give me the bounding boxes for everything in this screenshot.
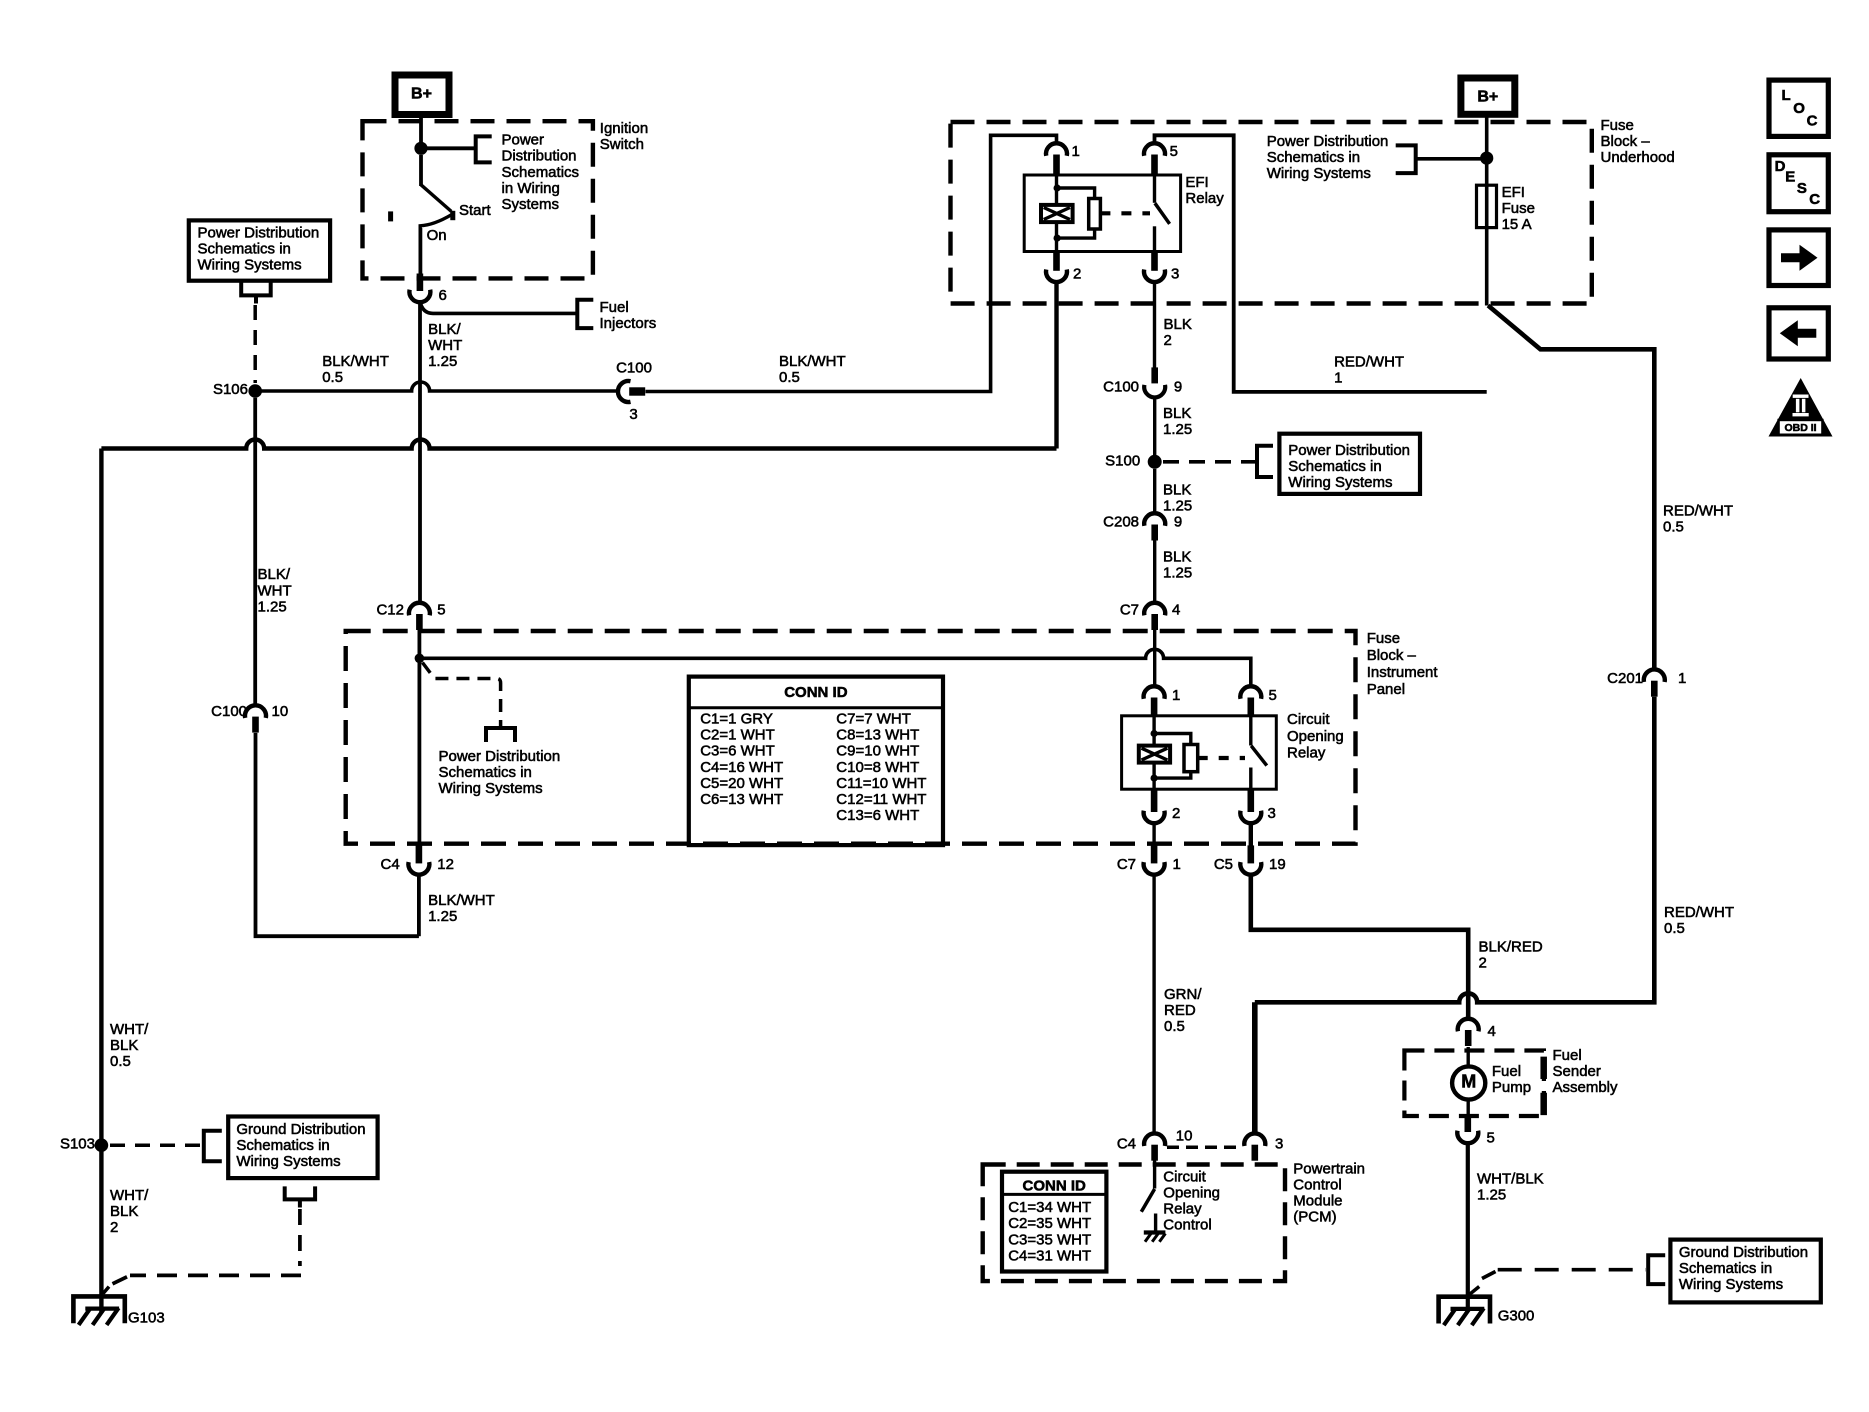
ground G103	[73, 1296, 124, 1323]
svg-text:C6=13 WHT: C6=13 WHT	[700, 791, 783, 808]
svg-text:Block –: Block –	[1367, 647, 1417, 664]
svg-text:3: 3	[1275, 1136, 1283, 1153]
svg-text:Assembly: Assembly	[1553, 1079, 1619, 1096]
svg-text:C2=1 WHT: C2=1 WHT	[700, 727, 775, 744]
svg-text:CONN ID: CONN ID	[784, 684, 848, 701]
svg-text:19: 19	[1269, 856, 1286, 873]
svg-text:0.5: 0.5	[1164, 1018, 1185, 1035]
svg-text:Fuel: Fuel	[600, 299, 629, 316]
svg-text:2: 2	[110, 1219, 118, 1236]
svg-text:Underhood: Underhood	[1601, 149, 1675, 166]
connector C201 pin 1	[1644, 669, 1665, 682]
svg-text:0.5: 0.5	[110, 1053, 131, 1070]
svg-text:S103: S103	[60, 1135, 95, 1152]
svg-text:Block –: Block –	[1601, 133, 1651, 150]
svg-text:C2=35 WHT: C2=35 WHT	[1008, 1215, 1091, 1232]
svg-text:C4: C4	[1117, 1136, 1136, 1153]
connector C4 pin 12	[408, 862, 429, 875]
svg-text:Control: Control	[1293, 1177, 1341, 1194]
svg-text:Power Distribution: Power Distribution	[198, 225, 320, 242]
connector COR pin 3	[1240, 811, 1261, 824]
wire connector 6 down to C12 (BLK/WHT 1.25)	[418, 302, 422, 604]
wire C100 pin10 down and right to C4 12	[256, 733, 419, 936]
svg-text:WHT/: WHT/	[110, 1021, 149, 1038]
svg-text:BLK: BLK	[110, 1203, 138, 1220]
connector C7 pin 1	[1144, 862, 1165, 875]
reference bracket (G300 ground distribution)	[1648, 1255, 1665, 1284]
EFI relay coil	[1041, 205, 1073, 222]
svg-text:1.25: 1.25	[1163, 497, 1192, 514]
svg-text:BLK: BLK	[110, 1037, 138, 1054]
svg-text:Wiring Systems: Wiring Systems	[1288, 474, 1392, 491]
COR junction lower	[1151, 775, 1158, 782]
svg-text:Schematics in: Schematics in	[1267, 149, 1360, 166]
wire ground bus down left side (WHT/BLK)	[99, 449, 103, 1314]
svg-text:Fuse: Fuse	[1502, 200, 1535, 217]
svg-text:On: On	[427, 227, 447, 244]
svg-text:0.5: 0.5	[779, 369, 800, 386]
svg-text:C7: C7	[1120, 602, 1139, 619]
svg-text:C3=6 WHT: C3=6 WHT	[700, 743, 775, 760]
svg-text:BLK/WHT: BLK/WHT	[322, 353, 389, 370]
svg-text:C1=34 WHT: C1=34 WHT	[1008, 1199, 1091, 1216]
icon forward arrow box	[1769, 230, 1828, 286]
COR switch lower contact	[1249, 768, 1252, 790]
fuel sender right edge dashes	[1540, 1057, 1547, 1116]
EFI coil return wire	[1055, 222, 1058, 251]
node junction inside ignition switch	[414, 142, 427, 155]
svg-text:BLK/WHT: BLK/WHT	[428, 892, 495, 909]
connector fuel pump pin 5	[1457, 1131, 1478, 1144]
svg-text:BLK/WHT: BLK/WHT	[779, 353, 846, 370]
svg-text:2: 2	[1073, 265, 1081, 282]
svg-text:Circuit: Circuit	[1163, 1169, 1206, 1186]
svg-text:1.25: 1.25	[258, 599, 287, 616]
svg-text:Sender: Sender	[1553, 1063, 1601, 1080]
wire reference bracket to fuse feed	[1416, 157, 1481, 161]
power node B+ (right battery feed)	[1461, 78, 1515, 114]
reference box Power Distribution (S100)	[1279, 434, 1420, 494]
wire C201 down to PCM pin 3	[1255, 697, 1655, 1003]
wire S106 down to C100 pin 10	[253, 398, 257, 706]
dashed pointer to power distribution note	[422, 663, 500, 727]
svg-text:Module: Module	[1293, 1193, 1342, 1210]
svg-text:10: 10	[1176, 1128, 1193, 1145]
svg-text:9: 9	[1174, 514, 1182, 531]
svg-text:3: 3	[629, 406, 637, 423]
dashed reference wire to G103 (horizontal)	[130, 1274, 301, 1278]
svg-text:Relay: Relay	[1287, 744, 1326, 761]
wire C7 pin1 down to PCM C4 pin10 (GRN/RED)	[1152, 874, 1155, 1134]
wire branch to fuel injectors	[420, 302, 577, 314]
connector PCM C4 pin 10	[1144, 1133, 1165, 1146]
wire B+ through EFI fuse	[1485, 115, 1489, 306]
EFI resistor bottom link	[1057, 229, 1095, 238]
contact tick Start	[450, 211, 455, 220]
svg-text:C12=11 WHT: C12=11 WHT	[836, 791, 926, 808]
connector PCM pin 3	[1244, 1133, 1265, 1146]
EFI switch blade	[1155, 203, 1170, 224]
wire S100 to C208 (BLK 1.25)	[1153, 469, 1156, 514]
EFI coil feed wire	[1055, 175, 1058, 205]
svg-text:BLK: BLK	[1163, 481, 1191, 498]
wire junction to COR pin 5	[419, 649, 1250, 687]
svg-text:BLK: BLK	[1163, 405, 1191, 422]
power node B+ (left battery feed)	[395, 75, 449, 115]
dashed diagonal into G103	[113, 1277, 128, 1284]
svg-text:Opening: Opening	[1287, 728, 1344, 745]
svg-text:Schematics in: Schematics in	[1679, 1260, 1772, 1277]
svg-text:RED/WHT: RED/WHT	[1663, 503, 1733, 520]
svg-text:E: E	[1785, 168, 1795, 185]
EFI switch lower contact	[1153, 226, 1156, 251]
dashed reference wire to G103 (vertical)	[298, 1209, 302, 1266]
svg-text:EFI: EFI	[1185, 174, 1208, 191]
svg-text:(PCM): (PCM)	[1293, 1209, 1336, 1226]
svg-text:Relay: Relay	[1163, 1201, 1202, 1218]
svg-text:Panel: Panel	[1367, 681, 1405, 698]
svg-text:D: D	[1775, 158, 1786, 175]
svg-text:C3=35 WHT: C3=35 WHT	[1008, 1232, 1091, 1249]
svg-text:S: S	[1797, 180, 1807, 197]
svg-text:Wiring Systems: Wiring Systems	[1267, 165, 1371, 182]
wire C12 down through fuse block to C4 pin 12	[417, 630, 421, 846]
wire S106 to C100 pin 3	[255, 382, 618, 391]
svg-text:C100: C100	[616, 359, 652, 376]
svg-text:Instrument: Instrument	[1367, 664, 1439, 681]
junction dot fuse feed	[1480, 152, 1493, 165]
svg-text:Wiring Systems: Wiring Systems	[439, 780, 543, 797]
svg-text:C5=20 WHT: C5=20 WHT	[700, 775, 783, 792]
svg-text:1.25: 1.25	[428, 908, 457, 925]
wire C100 pin3 to EFI relay pin 1 coil feed	[646, 135, 1057, 391]
svg-text:9: 9	[1174, 378, 1182, 395]
svg-text:4: 4	[1488, 1023, 1496, 1040]
icon DESC box	[1769, 155, 1828, 212]
reference bracket (instrument panel power note)	[486, 728, 515, 742]
EFI resistor	[1089, 199, 1101, 230]
COR relay coil	[1139, 746, 1170, 763]
svg-text:Fuel: Fuel	[1553, 1047, 1582, 1064]
svg-text:Schematics in: Schematics in	[236, 1137, 329, 1154]
connector C12 pin 5	[409, 603, 430, 616]
EFI switch upper contact	[1153, 175, 1156, 203]
svg-text:15 A: 15 A	[1502, 216, 1532, 233]
svg-text:1: 1	[1334, 369, 1342, 386]
dashed reference wire S103 to bracket	[110, 1143, 202, 1147]
svg-text:G300: G300	[1498, 1308, 1535, 1325]
svg-text:Distribution: Distribution	[502, 148, 577, 165]
svg-text:C4: C4	[381, 856, 400, 873]
connector fuel pump pin 4	[1458, 1019, 1479, 1032]
svg-text:C: C	[1807, 113, 1818, 130]
connector EFI relay pin 5	[1144, 143, 1165, 156]
svg-text:1.25: 1.25	[1163, 565, 1192, 582]
junction dot inside fuse block	[415, 654, 425, 664]
svg-text:Fuel: Fuel	[1492, 1063, 1521, 1080]
reference bracket (ignition switch power distribution)	[476, 136, 492, 162]
svg-text:Power: Power	[502, 131, 545, 148]
COR coil return wire	[1152, 763, 1155, 790]
svg-text:RED/WHT: RED/WHT	[1334, 353, 1404, 370]
svg-text:Power Distribution: Power Distribution	[1288, 442, 1410, 459]
svg-text:3: 3	[1171, 265, 1179, 282]
wire ground bus across (right to left)	[101, 439, 1056, 448]
wire C7-4 into fuse block to COR pin 1	[1153, 630, 1156, 687]
wire pin4 to motor	[1466, 1047, 1469, 1067]
svg-text:Fuse: Fuse	[1601, 117, 1634, 134]
svg-text:1: 1	[1172, 687, 1180, 704]
PCM switch feed wire	[1153, 1161, 1156, 1189]
wire through fuse	[1485, 185, 1489, 227]
svg-text:GRN/: GRN/	[1164, 986, 1202, 1003]
svg-text:Start: Start	[459, 202, 492, 219]
relay box EFI relay	[1024, 175, 1180, 252]
COR resistor top link	[1154, 734, 1191, 745]
svg-text:Ground Distribution: Ground Distribution	[1679, 1244, 1808, 1261]
reference bracket (fuel injectors)	[577, 300, 593, 328]
svg-text:Powertrain: Powertrain	[1293, 1161, 1365, 1178]
COR junction upper	[1151, 730, 1158, 737]
svg-text:0.5: 0.5	[322, 369, 343, 386]
svg-text:Power Distribution: Power Distribution	[439, 748, 561, 765]
svg-text:12: 12	[437, 856, 454, 873]
svg-text:O: O	[1793, 100, 1805, 117]
svg-text:WHT: WHT	[258, 582, 292, 599]
table CONN ID (PCM)	[1002, 1172, 1106, 1272]
connector EFI relay pin 2	[1046, 270, 1067, 283]
svg-text:WHT: WHT	[428, 337, 462, 354]
wire EFI pin3 down (BLK 2)	[1153, 282, 1156, 368]
svg-text:5: 5	[1487, 1130, 1495, 1147]
svg-text:Switch: Switch	[600, 136, 644, 153]
reference box Ground Distribution (right)	[1670, 1240, 1820, 1303]
svg-text:B+: B+	[411, 86, 432, 103]
svg-text:C10=8 WHT: C10=8 WHT	[836, 759, 919, 776]
svg-text:C7: C7	[1117, 856, 1136, 873]
svg-text:3: 3	[1268, 805, 1276, 822]
svg-text:0.5: 0.5	[1663, 519, 1684, 536]
wire C100-9 to S100 (BLK 1.25)	[1153, 397, 1156, 455]
svg-text:C4=31 WHT: C4=31 WHT	[1008, 1248, 1091, 1265]
wire stub into PCM pin 3	[1252, 1002, 1258, 1134]
dashed reference wire S100	[1163, 460, 1256, 464]
fuel sender assembly dashed box	[1404, 1051, 1544, 1117]
COR coil feed wire	[1152, 716, 1155, 746]
svg-text:5: 5	[1170, 143, 1178, 160]
svg-text:6: 6	[439, 287, 447, 304]
splice S106	[248, 384, 262, 398]
connector EFI relay pin 3	[1144, 270, 1165, 283]
svg-text:Schematics in: Schematics in	[1288, 458, 1381, 475]
svg-text:C100: C100	[211, 703, 247, 720]
svg-text:1.25: 1.25	[1163, 421, 1192, 438]
ground tick G103	[103, 1287, 109, 1294]
svg-text:BLK/RED: BLK/RED	[1479, 939, 1543, 956]
icon back arrow box	[1769, 308, 1828, 359]
COR resistor bottom link	[1154, 772, 1191, 778]
reference bracket (S100 power note)	[1257, 446, 1273, 477]
fuse block underhood dashed box	[951, 122, 1592, 304]
svg-text:Schematics in: Schematics in	[198, 241, 291, 258]
svg-text:WHT/: WHT/	[110, 1187, 149, 1204]
reference box Ground Distribution (left)	[228, 1117, 377, 1179]
svg-text:Systems: Systems	[502, 196, 560, 213]
svg-text:C5: C5	[1214, 856, 1233, 873]
dashed connector face PCM	[1167, 1146, 1242, 1150]
svg-text:BLK/: BLK/	[428, 321, 461, 338]
svg-text:S100: S100	[1105, 453, 1140, 470]
table CONN ID (instrument panel fuse block)	[689, 677, 943, 846]
svg-text:G103: G103	[128, 1310, 165, 1327]
fuse EFI 15A	[1477, 185, 1497, 227]
wire B+ to ignition switch junction	[419, 115, 423, 145]
svg-text:B+: B+	[1477, 89, 1498, 106]
fuse block instrument panel dashed box	[346, 631, 1356, 844]
wire COR pin3 to C5 pin19	[1249, 823, 1253, 846]
svg-text:C8=13 WHT: C8=13 WHT	[836, 727, 919, 744]
svg-text:Ignition: Ignition	[600, 120, 648, 137]
svg-text:0.5: 0.5	[1664, 920, 1685, 937]
svg-text:C1=1 GRY: C1=1 GRY	[700, 711, 773, 728]
ground G300	[1439, 1297, 1490, 1324]
PCM driver switch blade	[1141, 1189, 1154, 1212]
reference bracket (S103 ground distribution)	[204, 1131, 222, 1162]
icon OBD II triangle	[1769, 378, 1833, 437]
svg-text:EFI: EFI	[1502, 184, 1525, 201]
dashed diagonal from G300	[1482, 1272, 1496, 1279]
wire C5 pin19 to fuel pump pin 4 (BLK/RED)	[1251, 874, 1468, 1019]
svg-text:RED/WHT: RED/WHT	[1664, 904, 1734, 921]
connector COR pin 1	[1144, 686, 1165, 699]
EFI resistor top link	[1057, 188, 1095, 199]
ignition switch component dashed box	[363, 121, 593, 278]
svg-text:L: L	[1782, 87, 1791, 104]
PCM internal ground	[1144, 1230, 1166, 1234]
splice S100	[1148, 455, 1162, 469]
connector C7 pin 4	[1144, 603, 1165, 616]
dashed reference wire G300 to bracket	[1498, 1268, 1646, 1272]
svg-text:Ground Distribution: Ground Distribution	[236, 1121, 365, 1138]
PCM component dashed box	[983, 1165, 1285, 1282]
svg-text:2: 2	[1172, 805, 1180, 822]
svg-text:Power Distribution: Power Distribution	[1267, 133, 1389, 150]
connector C100 pin 3	[618, 381, 631, 402]
ground tick G300	[1466, 1287, 1479, 1298]
connector C208 pin 9	[1144, 513, 1165, 526]
svg-text:Injectors: Injectors	[600, 315, 657, 332]
svg-text:S106: S106	[213, 381, 248, 398]
svg-text:Wiring Systems: Wiring Systems	[236, 1153, 340, 1170]
svg-text:in Wiring: in Wiring	[502, 180, 560, 197]
svg-text:1.25: 1.25	[428, 353, 457, 370]
svg-text:C208: C208	[1103, 514, 1139, 531]
reference bracket under ground box	[285, 1186, 315, 1199]
connector pin 6 of ignition switch	[409, 290, 430, 303]
svg-text:C13=6 WHT: C13=6 WHT	[836, 807, 919, 824]
svg-text:4: 4	[1172, 602, 1180, 619]
svg-text:Fuse: Fuse	[1367, 630, 1400, 647]
svg-text:BLK/: BLK/	[258, 566, 291, 583]
svg-text:C201: C201	[1607, 670, 1643, 687]
connector C5 pin 19	[1240, 862, 1261, 875]
svg-text:C12: C12	[376, 602, 404, 619]
relay box circuit opening relay	[1122, 716, 1277, 789]
icon LOC box	[1769, 80, 1828, 136]
wire fuse output diagonal (RED/WHT 0.5)	[1488, 306, 1654, 671]
COR switch upper contact	[1249, 716, 1252, 746]
svg-text:Relay: Relay	[1185, 190, 1224, 207]
wire pump pin5 to G300 (WHT/BLK)	[1466, 1143, 1470, 1310]
svg-text:OBD II: OBD II	[1784, 422, 1816, 434]
svg-text:1.25: 1.25	[1477, 1187, 1506, 1204]
COR switch blade	[1251, 746, 1267, 766]
svg-text:Wiring Systems: Wiring Systems	[1679, 1276, 1783, 1293]
connector COR pin 5	[1240, 686, 1261, 699]
svg-text:5: 5	[437, 602, 445, 619]
reference bracket under left box	[241, 282, 271, 295]
svg-text:1: 1	[1072, 143, 1080, 160]
svg-text:10: 10	[272, 703, 289, 720]
svg-text:C11=10 WHT: C11=10 WHT	[836, 775, 926, 792]
svg-text:C4=16 WHT: C4=16 WHT	[700, 759, 783, 776]
connector COR pin 2	[1144, 811, 1165, 824]
svg-text:Wiring Systems: Wiring Systems	[198, 257, 302, 274]
wire EFI relay pin 2 down to ground bus	[1054, 282, 1058, 449]
wire COR pin2 to C7 pin1	[1152, 823, 1155, 846]
svg-text:Control: Control	[1163, 1217, 1211, 1234]
svg-text:WHT/BLK: WHT/BLK	[1477, 1171, 1544, 1188]
svg-text:Opening: Opening	[1163, 1185, 1220, 1202]
wire ignition switch common	[419, 155, 423, 186]
svg-text:1: 1	[1678, 670, 1686, 687]
wire C4 pin12 down to corner	[417, 874, 421, 936]
contact tick I (lock position)	[388, 211, 393, 221]
dashed reference wire to S106	[253, 305, 257, 383]
svg-text:BLK: BLK	[1164, 316, 1192, 333]
reference bracket (underhood power note)	[1396, 145, 1416, 173]
svg-text:5: 5	[1269, 687, 1277, 704]
svg-text:Pump: Pump	[1492, 1079, 1531, 1096]
reference box Power Distribution (left)	[189, 220, 330, 280]
EFI actuator dashed link	[1100, 211, 1150, 215]
svg-text:C9=10 WHT: C9=10 WHT	[836, 743, 919, 760]
switch blade return to On	[420, 215, 451, 232]
connector EFI relay pin 1	[1046, 143, 1067, 156]
svg-text:CONN ID: CONN ID	[1023, 1178, 1087, 1195]
wire motor to pin 5	[1466, 1100, 1469, 1118]
svg-text:BLK: BLK	[1163, 549, 1191, 566]
connector C100 pin 10	[245, 705, 266, 718]
wire junction to reference bracket	[421, 146, 475, 150]
COR resistor	[1184, 745, 1198, 772]
wire C208 to C7-4 (BLK 1.25)	[1153, 541, 1156, 604]
switch blade to Start (ignition switch)	[421, 185, 451, 212]
PCM switch lower contact	[1154, 1214, 1157, 1232]
svg-text:2: 2	[1479, 955, 1487, 972]
wire EFI pin5 loop to fuse (RED/WHT 1)	[1155, 135, 1487, 392]
wire switch output to connector 6	[418, 228, 422, 274]
COR actuator dashed link	[1198, 756, 1245, 760]
svg-text:C7=7 WHT: C7=7 WHT	[836, 711, 911, 728]
fuel pump motor M	[1452, 1066, 1485, 1099]
svg-text:2: 2	[1164, 332, 1172, 349]
EFI junction upper	[1054, 184, 1061, 191]
connector C100 pin 9 (bar above arc)	[1151, 367, 1158, 383]
EFI junction lower	[1054, 235, 1061, 242]
svg-text:1: 1	[1173, 856, 1181, 873]
splice S103	[95, 1138, 109, 1152]
